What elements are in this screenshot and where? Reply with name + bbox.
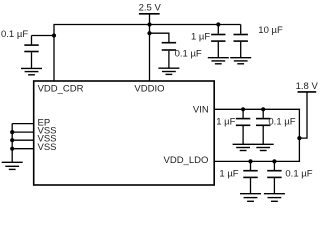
node junction C7 on VDD_LDO wire (248, 159, 252, 163)
power terminal 1.8 V (296, 81, 319, 92)
wire 2.5V stem down to VDDIO pin (149, 14, 151, 81)
node junction branch to C1 (52, 33, 56, 37)
svg-text:VDDIO: VDDIO (134, 83, 164, 94)
ground for C3 (208, 58, 229, 64)
ground for C6 (253, 144, 274, 150)
wire VSS bus down to ground (11, 124, 13, 163)
svg-text:1.8 V: 1.8 V (296, 81, 318, 92)
capacitor C7 1 uF (VDD_LDO) (243, 161, 257, 193)
svg-text:10 µF: 10 µF (258, 25, 283, 36)
node junction C6 on VIN wire (261, 107, 265, 111)
svg-text:VDD_CDR: VDD_CDR (38, 83, 84, 94)
wire VIN to corner, down, and back as VDD_LDO wire (214, 109, 299, 161)
svg-text:1 µF: 1 µF (191, 32, 210, 43)
wire EP pin (12, 123, 34, 125)
svg-text:1 µF: 1 µF (216, 117, 235, 128)
capacitor C8 0.1 uF (VDD_LDO) (267, 161, 281, 193)
capacitor C3 1 uF (on rail) (211, 25, 225, 58)
capacitor C1 0.1 uF (left of VDD_CDR) (24, 36, 38, 69)
ground for C8 (264, 194, 285, 202)
wire VSS pin 2 (12, 139, 34, 141)
svg-text:0.1 µF: 0.1 µF (285, 168, 312, 179)
wire VSS pin 1 (12, 131, 34, 133)
svg-text:0.1 µF: 0.1 µF (1, 29, 28, 40)
ground for C7 (240, 194, 261, 202)
wire branch to capacitor C2 (150, 33, 169, 42)
ground for C1 (21, 68, 42, 74)
node junction C3 on rail (216, 22, 220, 26)
capacitor C5 1 uF (VIN) (236, 109, 250, 144)
node junction branch to C2 (147, 31, 151, 35)
wire branch to capacitor C1 (32, 35, 55, 37)
capacitor C4 10 uF (rail end) (234, 25, 248, 58)
node junction VSS1 (10, 130, 14, 134)
wire VSS pin 3 (12, 148, 34, 150)
node junction C5 on VIN wire (241, 107, 245, 111)
svg-text:VDD_LDO: VDD_LDO (164, 155, 209, 166)
ground for C5 (233, 144, 254, 150)
wire 2.5V rail with corner down to VDD_CDR pin (54, 25, 241, 82)
wire 1.8V stem down to junction (299, 92, 307, 138)
svg-text:2.5 V: 2.5 V (139, 3, 162, 14)
node junction C8 on VDD_LDO wire (272, 159, 276, 163)
ground for C4 (230, 58, 251, 64)
svg-text:VIN: VIN (193, 105, 209, 116)
svg-text:0.1 µF: 0.1 µF (175, 49, 202, 60)
ground for C2 (158, 68, 179, 74)
svg-text:0.1 µF: 0.1 µF (268, 117, 295, 128)
IC U1 box (34, 81, 215, 185)
capacitor C6 0.1 uF (VIN) (256, 109, 270, 144)
node junction VSS3 (10, 147, 14, 151)
node junction VSS2 (10, 138, 14, 142)
svg-text:VSS: VSS (38, 142, 57, 153)
svg-text:1 µF: 1 µF (219, 168, 238, 179)
node junction 1.8V / VIN / VDD_LDO (297, 136, 301, 140)
node junction rail/stem (147, 22, 151, 26)
power terminal 2.5 V (139, 3, 162, 14)
capacitor C2 0.1 uF (under rail) (162, 43, 176, 68)
ground for VSS bus (2, 162, 23, 169)
